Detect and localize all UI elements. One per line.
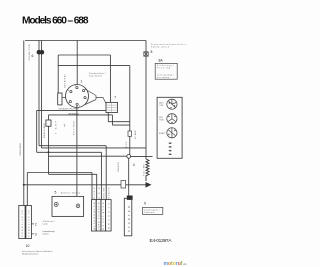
- wire left bus: [23, 41, 25, 206]
- svg-text:Zugmagnet /: Zugmagnet /: [144, 209, 160, 212]
- svg-text:HEADLIGHTS: HEADLIGHTS: [21, 210, 24, 237]
- wire lamp2 alternator: [27, 173, 92, 206]
- svg-text:E4-01397A: E4-01397A: [150, 238, 173, 244]
- key switch U1: [66, 85, 89, 108]
- svg-text:HEADLIGHTS: HEADLIGHTS: [28, 210, 31, 237]
- svg-text:BLACK: BLACK: [108, 187, 111, 199]
- pin SW: [69, 101, 71, 103]
- pin top: [76, 87, 78, 89]
- alternator box: [92, 200, 97, 231]
- connector bowtie symbol: [144, 52, 148, 56]
- cluster output wire: [108, 113, 130, 122]
- pin letters: [67, 85, 88, 107]
- svg-text:9: 9: [144, 202, 146, 206]
- svg-text:GRÜN/GRN: GRÜN/GRN: [19, 143, 22, 156]
- coil elektromagnet: [146, 159, 149, 181]
- connector block small rect: [58, 93, 62, 105]
- svg-text:RED/BK: RED/BK: [104, 187, 106, 199]
- interlock box 7: [46, 120, 51, 126]
- legend ticks: [169, 143, 172, 144]
- svg-text:Scheinwerfer-Anschlußkabel /: Scheinwerfer-Anschlußkabel /: [22, 250, 53, 253]
- pin NW: [70, 91, 72, 93]
- svg-text:ROT: ROT: [126, 141, 128, 148]
- carb solenoid box: [96, 200, 101, 231]
- svg-text:Lamp: Lamp: [43, 223, 49, 225]
- solenoid junction circle: [127, 155, 131, 159]
- switch positions box: [157, 97, 182, 158]
- svg-text:Headlamp harness: Headlamp harness: [22, 253, 39, 255]
- wire to solenoid circle: [37, 152, 102, 199]
- svg-text:Safety switch: Safety switch: [151, 45, 169, 48]
- svg-text:GELB/YEL: GELB/YEL: [65, 73, 67, 88]
- arrow head: [146, 182, 152, 188]
- pin S: [76, 103, 78, 105]
- pin E: [84, 97, 86, 99]
- svg-text:6: 6: [32, 54, 34, 58]
- svg-text:4: 4: [133, 163, 135, 167]
- wire top bus: [25, 40, 146, 42]
- svg-text:VIO/BK-PUR: VIO/BK-PUR: [29, 44, 31, 60]
- svg-text:L: L: [87, 98, 88, 100]
- svg-text:5: 5: [55, 191, 57, 195]
- starter terminal: [127, 196, 133, 200]
- svg-text:Zündschalter /: Zündschalter /: [89, 72, 106, 75]
- ground line with arrow: [24, 184, 146, 186]
- connector cluster block: [106, 102, 118, 112]
- wire fuse to solenoid: [129, 136, 131, 154]
- svg-text:7: 7: [64, 124, 66, 128]
- svg-text:10: 10: [26, 244, 30, 248]
- svg-text:ROT/RED: ROT/RED: [74, 120, 76, 135]
- svg-text:START: START: [159, 132, 166, 135]
- battery B1: [52, 196, 84, 216]
- svg-text:Socket: Socket: [43, 232, 50, 235]
- battery minus terminal: [76, 204, 80, 208]
- svg-text:1: 1: [81, 80, 83, 84]
- svg-text:not shown: not shown: [157, 76, 169, 79]
- svg-text:7: 7: [114, 96, 116, 100]
- regulator box: [101, 200, 106, 231]
- svg-text:Fuse 8A: Fuse 8A: [157, 66, 171, 69]
- svg-text:20 AMP: 20 AMP: [134, 129, 137, 139]
- headlight lamp 2: [26, 206, 32, 239]
- wire solenoid to coil: [131, 155, 153, 157]
- headlight lamp 1: [19, 206, 25, 239]
- label 2 lamp: [31, 223, 34, 225]
- svg-text:3: 3: [35, 232, 37, 236]
- junction dot: [48, 151, 50, 153]
- wire right vertical from bus: [145, 41, 147, 160]
- inline module on ground line: [121, 181, 126, 189]
- wire battery feed: [76, 106, 78, 197]
- position OFF circle: [167, 99, 177, 109]
- svg-text:Solenoid: Solenoid: [144, 212, 154, 214]
- svg-text:SOL/WH: SOL/WH: [143, 163, 145, 176]
- harness funnel right of switch: [85, 89, 107, 105]
- svg-text:Batterie / Battery: Batterie / Battery: [61, 191, 80, 194]
- svg-text:GRÜN/BLAU: GRÜN/BLAU: [68, 112, 79, 115]
- magneto box: [106, 200, 112, 231]
- wire fuse drop left: [38, 41, 40, 146]
- wire starter feed: [128, 158, 130, 195]
- svg-text:GELB/RT: GELB/RT: [118, 161, 120, 172]
- wire fuse drop right: [41, 41, 43, 149]
- svg-text:CARB.SOLENOID: CARB.SOLENOID: [98, 201, 101, 230]
- wire inner box top: [58, 55, 110, 102]
- fuse note box: [155, 63, 177, 79]
- wire magneto: [39, 146, 106, 200]
- svg-text:REGULATOR: REGULATOR: [102, 202, 105, 230]
- svg-text:Key Switch: Key Switch: [89, 74, 103, 77]
- svg-text:8A: 8A: [159, 59, 164, 63]
- battery plus terminal: [54, 202, 58, 206]
- starter box: [124, 198, 132, 236]
- wire regulator: [42, 148, 147, 156]
- svg-text:BRAUN/BRN: BRAUN/BRN: [43, 122, 46, 138]
- fuse F blob: [37, 50, 42, 55]
- wire B grn/blu: [49, 115, 130, 125]
- svg-text:2: 2: [35, 222, 37, 226]
- wire carb solenoid: [49, 174, 97, 199]
- position START circle: [167, 128, 177, 138]
- svg-text:8: 8: [151, 50, 153, 54]
- label 3 socket: [31, 233, 34, 235]
- wire A yel/wht: [37, 110, 106, 152]
- wire mid horizontal to right: [58, 66, 130, 131]
- pin NE: [83, 90, 85, 92]
- inline fuse 20A: [128, 131, 132, 136]
- position RUN circle: [167, 114, 177, 124]
- svg-text:Models 660 – 688: Models 660 – 688: [22, 16, 89, 27]
- wire key switch top feed: [76, 41, 78, 85]
- svg-text:RUN: RUN: [159, 120, 164, 122]
